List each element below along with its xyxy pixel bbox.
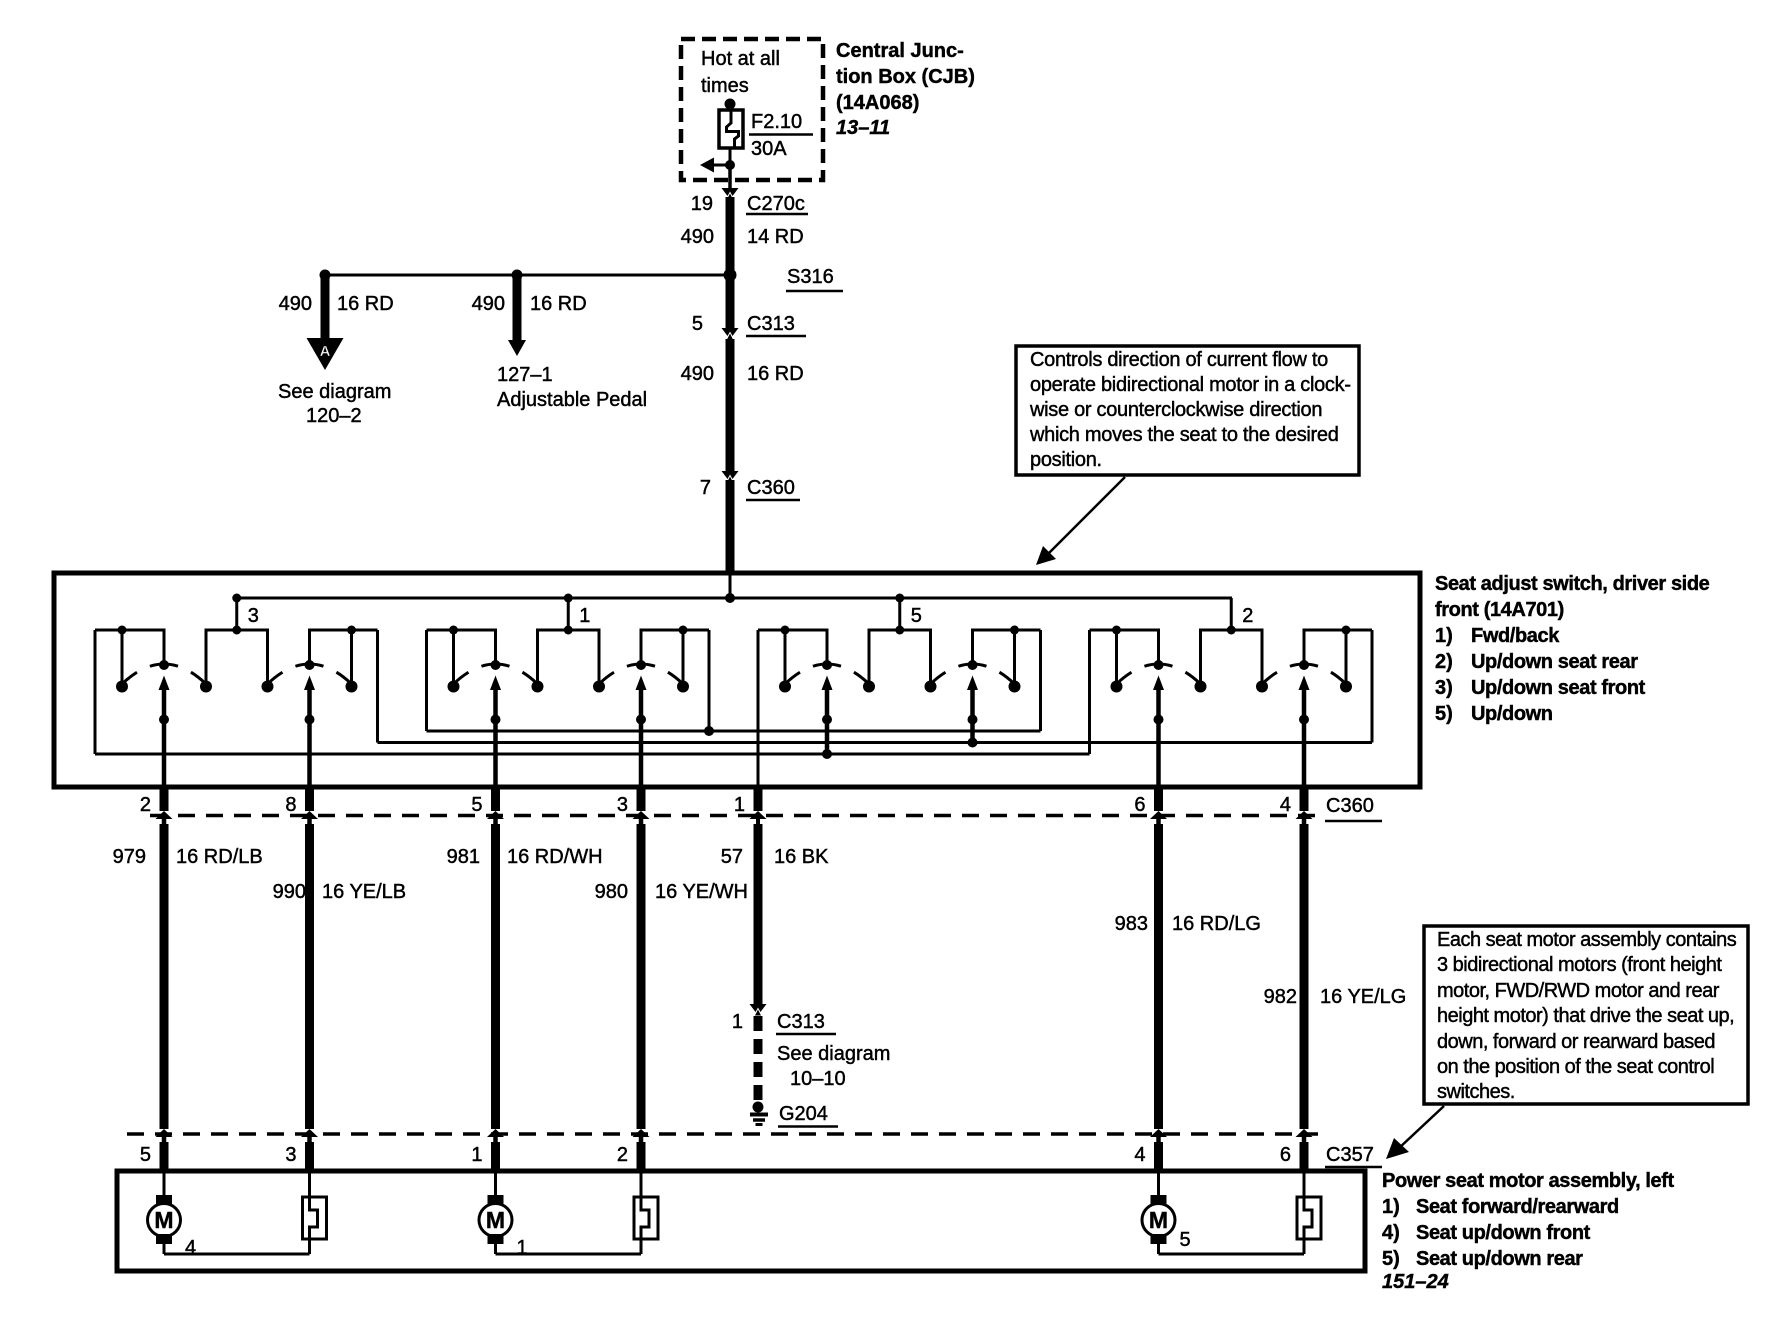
wire link motor M1 to breaker (terminal 4) bbox=[163, 1237, 312, 1259]
svg-text:A: A bbox=[320, 343, 331, 360]
svg-text:16 BK: 16 BK bbox=[774, 846, 829, 868]
svg-text:Each seat motor assembly conta: Each seat motor assembly contains bbox=[1437, 929, 1737, 951]
seat adjust switch, driver side front (14A701): enclosure bbox=[54, 573, 1420, 787]
pair 2 left common to box edge bbox=[491, 688, 501, 785]
return line h3 bbox=[95, 753, 1090, 756]
svg-text:990: 990 bbox=[273, 881, 306, 903]
svg-text:2): 2) bbox=[1435, 651, 1453, 673]
switch pair 3: left wiper arc and arrow bbox=[785, 630, 869, 690]
pair 3 outer legs bbox=[1039, 630, 1042, 731]
svg-text:down, forward or rearward base: down, forward or rearward based bbox=[1437, 1031, 1715, 1053]
svg-text:C270c: C270c bbox=[747, 193, 805, 215]
svg-text:Fwd/back: Fwd/back bbox=[1471, 625, 1560, 647]
motor M2 (seat motor) bbox=[479, 1173, 512, 1244]
switch pair 2: left wiper arc and arrow bbox=[454, 630, 538, 690]
svg-text:5: 5 bbox=[471, 794, 482, 816]
svg-text:C360: C360 bbox=[1326, 795, 1374, 817]
switch pin 5 wire through C360 bbox=[471, 785, 504, 1129]
svg-text:5): 5) bbox=[1382, 1248, 1400, 1270]
svg-text:1: 1 bbox=[734, 794, 745, 816]
svg-text:1: 1 bbox=[517, 1237, 528, 1259]
svg-text:8: 8 bbox=[285, 794, 296, 816]
svg-text:position.: position. bbox=[1030, 449, 1102, 471]
wire 981 16 RD/WH bbox=[447, 846, 603, 868]
switch supply bus bbox=[236, 597, 1232, 600]
svg-text:16 YE/WH: 16 YE/WH bbox=[655, 881, 748, 903]
svg-text:1: 1 bbox=[732, 1011, 743, 1033]
wire branch: 490 16 RD to adjustable pedal 127-1 bbox=[472, 277, 647, 411]
svg-text:Hot at all: Hot at all bbox=[701, 48, 780, 70]
svg-text:4: 4 bbox=[185, 1237, 196, 1259]
svg-text:4): 4) bbox=[1382, 1222, 1400, 1244]
svg-text:10–10: 10–10 bbox=[790, 1068, 846, 1090]
svg-text:16 RD/WH: 16 RD/WH bbox=[507, 846, 603, 868]
svg-text:981: 981 bbox=[447, 846, 480, 868]
svg-text:2: 2 bbox=[1242, 605, 1253, 627]
Central Junction Box (CJB) dashed enclosure bbox=[681, 39, 823, 180]
wire 57 16 BK bbox=[721, 846, 829, 868]
svg-text:151–24: 151–24 bbox=[1382, 1271, 1449, 1293]
switch title text 14A701 bbox=[1435, 573, 1710, 725]
wire: feed into switch box bbox=[726, 480, 735, 572]
motor pin 3 wire through C357 bbox=[285, 1129, 318, 1171]
switch pair 1: left wiper arc and arrow bbox=[122, 630, 206, 690]
circuit breaker for motor M3 bbox=[1297, 1173, 1321, 1239]
switch pin 4 wire through C360 bbox=[1280, 785, 1313, 1129]
svg-text:6: 6 bbox=[1134, 794, 1145, 816]
svg-text:1): 1) bbox=[1435, 625, 1453, 647]
svg-text:Up/down: Up/down bbox=[1471, 703, 1553, 725]
connector C270c pin 19 bbox=[691, 188, 808, 215]
svg-text:Up/down seat front: Up/down seat front bbox=[1471, 677, 1646, 699]
return line h1 bbox=[427, 730, 1041, 733]
svg-text:C360: C360 bbox=[747, 477, 795, 499]
wire 983 16 RD/LG bbox=[1115, 913, 1261, 935]
switch pair 1: supply drop and bars (terminal 3) bbox=[95, 594, 378, 635]
svg-text:16 RD: 16 RD bbox=[747, 363, 804, 385]
CJB title text 14A068 bbox=[836, 40, 975, 139]
svg-text:C313: C313 bbox=[777, 1011, 825, 1033]
svg-text:3: 3 bbox=[248, 605, 259, 627]
connector C360 pin 7 bbox=[700, 471, 800, 501]
switch pair 3: right wiper arc and arrow bbox=[931, 630, 1015, 690]
svg-text:490: 490 bbox=[681, 226, 714, 248]
switch pair 4: right wiper arc and arrow bbox=[1262, 630, 1346, 690]
motor pin 1 wire through C357 bbox=[471, 1129, 504, 1171]
svg-text:G204: G204 bbox=[779, 1103, 828, 1125]
wire: feed junction to supply bus inside switch bbox=[725, 575, 735, 603]
page reference 151-24 bbox=[1382, 1271, 1449, 1293]
svg-text:3: 3 bbox=[285, 1144, 296, 1166]
svg-text:See diagram: See diagram bbox=[777, 1043, 890, 1065]
svg-text:times: times bbox=[701, 75, 749, 97]
switch pair 4: supply drop and bars (terminal 2) bbox=[1090, 598, 1373, 635]
motor pin 4 wire through C357 bbox=[1134, 1129, 1167, 1171]
svg-text:(14A068): (14A068) bbox=[836, 92, 919, 114]
svg-text:5): 5) bbox=[1435, 703, 1453, 725]
pair 3 right common to h2 bbox=[968, 688, 978, 748]
svg-text:Seat up/down rear: Seat up/down rear bbox=[1416, 1248, 1583, 1270]
svg-text:983: 983 bbox=[1115, 913, 1148, 935]
leader arrow from note to switch box bbox=[1036, 477, 1125, 565]
svg-text:16 RD: 16 RD bbox=[337, 293, 394, 315]
svg-text:7: 7 bbox=[700, 477, 711, 499]
node: hot feed at fuse top bbox=[725, 99, 736, 111]
svg-text:1: 1 bbox=[579, 605, 590, 627]
svg-text:16 RD/LG: 16 RD/LG bbox=[1172, 913, 1261, 935]
svg-text:Controls direction of current: Controls direction of current flow to bbox=[1030, 349, 1328, 371]
switch pair 2: right wiper arc and arrow bbox=[599, 630, 683, 690]
svg-text:1: 1 bbox=[471, 1144, 482, 1166]
motor pin 5 wire through C357 bbox=[140, 1129, 173, 1171]
svg-text:5: 5 bbox=[140, 1144, 151, 1166]
motor M1 (seat motor) bbox=[148, 1173, 181, 1244]
svg-text:3 bidirectional motors (front: 3 bidirectional motors (front height bbox=[1437, 954, 1722, 976]
svg-text:6: 6 bbox=[1280, 1144, 1291, 1166]
wire 982 16 YE/LG bbox=[1264, 986, 1407, 1008]
pair 1 left common to box edge bbox=[159, 688, 169, 785]
leader arrow from note 2 to motor box bbox=[1386, 1106, 1444, 1159]
wire 979 16 RD/LB bbox=[113, 846, 263, 868]
switch pin 2 wire through C360 bbox=[140, 785, 173, 1129]
svg-text:16 YE/LG: 16 YE/LG bbox=[1320, 986, 1406, 1008]
svg-text:tion Box (CJB): tion Box (CJB) bbox=[836, 66, 975, 88]
pair 4 outer legs bbox=[1088, 630, 1374, 754]
wire 490 16 RD (to switch) bbox=[681, 339, 804, 471]
svg-text:F2.10: F2.10 bbox=[751, 111, 802, 133]
motor pin 6 wire through C357 bbox=[1280, 1129, 1313, 1171]
svg-text:19: 19 bbox=[691, 193, 713, 215]
note: each seat motor assembly bbox=[1424, 926, 1748, 1104]
ground G204 bbox=[750, 1102, 838, 1128]
svg-text:127–1: 127–1 bbox=[497, 364, 553, 386]
svg-text:Seat up/down front: Seat up/down front bbox=[1416, 1222, 1591, 1244]
pair 3 left common to h3 bbox=[822, 688, 832, 759]
pair 4 right common to box edge bbox=[1299, 688, 1309, 785]
dashed ground wire 57 bbox=[754, 1016, 763, 1102]
svg-text:See diagram: See diagram bbox=[278, 381, 391, 403]
svg-text:wise or counterclockwise direc: wise or counterclockwise direction bbox=[1029, 399, 1322, 421]
fuse F2.10 30A bbox=[719, 110, 813, 160]
power seat motor assembly, left: enclosure bbox=[117, 1171, 1365, 1271]
ground pin 1 wire through C360 bbox=[734, 785, 767, 824]
pair 1 right common to box edge bbox=[305, 688, 315, 785]
svg-text:57: 57 bbox=[721, 846, 743, 868]
svg-text:which moves the seat to the de: which moves the seat to the desired bbox=[1029, 424, 1339, 446]
switch pair 3: supply drop and bars (terminal 5) bbox=[758, 594, 1041, 635]
svg-text:120–2: 120–2 bbox=[306, 405, 362, 427]
svg-text:Central Junc-: Central Junc- bbox=[836, 40, 964, 62]
pair 1 outer legs to return lines bbox=[94, 630, 380, 754]
switch pair 4: left wiper arc and arrow bbox=[1117, 630, 1201, 690]
splice S316 bbox=[320, 266, 844, 292]
wire link motor M2 to breaker (terminal 1) bbox=[494, 1237, 643, 1259]
switch pin 3 wire through C360 bbox=[617, 785, 650, 1129]
svg-text:M: M bbox=[486, 1207, 505, 1233]
connector C360 dashed separation line bbox=[150, 795, 1382, 822]
svg-text:C313: C313 bbox=[747, 313, 795, 335]
svg-text:Power seat motor assembly, lef: Power seat motor assembly, left bbox=[1382, 1170, 1675, 1192]
svg-text:13–11: 13–11 bbox=[836, 117, 890, 139]
svg-text:motor, FWD/RWD motor and rear: motor, FWD/RWD motor and rear bbox=[1437, 980, 1720, 1002]
wire 490 14 RD (circuit 490) bbox=[681, 197, 804, 275]
svg-text:M: M bbox=[154, 1207, 173, 1233]
circuit breaker for motor M2 bbox=[634, 1173, 658, 1239]
svg-text:5: 5 bbox=[1180, 1229, 1191, 1251]
svg-text:982: 982 bbox=[1264, 986, 1297, 1008]
svg-text:30A: 30A bbox=[751, 138, 787, 160]
svg-text:on the position of the seat co: on the position of the seat control bbox=[1437, 1056, 1714, 1078]
motor M3 (seat motor) bbox=[1142, 1173, 1175, 1244]
svg-text:980: 980 bbox=[595, 881, 628, 903]
pair 4 left common to box edge bbox=[1154, 688, 1164, 785]
svg-text:4: 4 bbox=[1280, 794, 1291, 816]
return line h2 bbox=[378, 741, 1373, 744]
switch pair 1: fixed contacts bbox=[116, 630, 358, 693]
svg-text:switches.: switches. bbox=[1437, 1081, 1515, 1103]
motor assembly title text bbox=[1382, 1170, 1675, 1270]
svg-text:Seat forward/rearward: Seat forward/rearward bbox=[1416, 1196, 1619, 1218]
svg-text:5: 5 bbox=[911, 605, 922, 627]
switch pin 6 wire through C360 bbox=[1134, 785, 1167, 1129]
svg-text:S316: S316 bbox=[787, 266, 834, 288]
wire branch: 490 16 RD to diagram 120-2 (arrow A) bbox=[278, 277, 394, 427]
svg-text:490: 490 bbox=[681, 363, 714, 385]
switch pair 2: supply drop and bars (terminal 1) bbox=[427, 594, 710, 635]
switch pair 4: fixed contacts bbox=[1111, 630, 1353, 693]
svg-text:2: 2 bbox=[140, 794, 151, 816]
svg-text:14 RD: 14 RD bbox=[747, 226, 804, 248]
wire: main feed below S316 bbox=[726, 277, 735, 329]
ground branch wire inside switch box (pin 1) bbox=[757, 630, 760, 785]
pair 2 right common to box edge bbox=[636, 688, 646, 785]
svg-text:front (14A701): front (14A701) bbox=[1435, 599, 1564, 621]
see diagram 10-10 note bbox=[777, 1043, 890, 1090]
svg-text:C357: C357 bbox=[1326, 1144, 1374, 1166]
svg-text:Adjustable Pedal: Adjustable Pedal bbox=[497, 389, 647, 411]
motor pin 2 wire through C357 bbox=[617, 1129, 650, 1171]
switch pair 2: fixed contacts bbox=[448, 630, 690, 693]
note: controls direction of current flow bbox=[1016, 346, 1359, 475]
svg-text:Up/down seat rear: Up/down seat rear bbox=[1471, 651, 1638, 673]
svg-text:operate bidirectional motor in: operate bidirectional motor in a clock- bbox=[1030, 374, 1351, 396]
switch pair 1: right wiper arc and arrow bbox=[268, 630, 352, 690]
svg-text:height motor) that drive the s: height motor) that drive the seat up, bbox=[1437, 1005, 1734, 1027]
svg-text:Seat adjust switch, driver sid: Seat adjust switch, driver side bbox=[1435, 573, 1710, 595]
svg-text:1): 1) bbox=[1382, 1196, 1400, 1218]
circuit breaker for motor M1 bbox=[303, 1173, 327, 1239]
wire link motor M3 to breaker (terminal 5) bbox=[1157, 1229, 1306, 1256]
svg-text:16 RD/LB: 16 RD/LB bbox=[176, 846, 263, 868]
wire 990 16 YE/LB bbox=[273, 881, 407, 903]
connector C313 pin 5 bbox=[692, 313, 806, 340]
svg-text:490: 490 bbox=[472, 293, 505, 315]
connector C313 pin 1 (ground wire) bbox=[732, 824, 836, 1035]
switch pair 3: fixed contacts bbox=[779, 630, 1021, 693]
pair 2 outer legs to return lines bbox=[425, 630, 714, 736]
connector C357 dashed separation line bbox=[127, 1134, 1382, 1168]
svg-text:5: 5 bbox=[692, 313, 703, 335]
switch pin 8 wire through C360 bbox=[285, 785, 318, 1129]
wire 980 16 YE/WH bbox=[595, 881, 748, 903]
svg-text:16 RD: 16 RD bbox=[530, 293, 587, 315]
svg-text:3): 3) bbox=[1435, 677, 1453, 699]
wire: fuse output junction with branch arrow inside CJB bbox=[700, 148, 735, 188]
svg-text:M: M bbox=[1149, 1207, 1168, 1233]
svg-text:4: 4 bbox=[1134, 1144, 1145, 1166]
svg-text:490: 490 bbox=[279, 293, 312, 315]
svg-text:979: 979 bbox=[113, 846, 146, 868]
svg-text:16 YE/LB: 16 YE/LB bbox=[322, 881, 406, 903]
svg-text:2: 2 bbox=[617, 1144, 628, 1166]
svg-text:3: 3 bbox=[617, 794, 628, 816]
